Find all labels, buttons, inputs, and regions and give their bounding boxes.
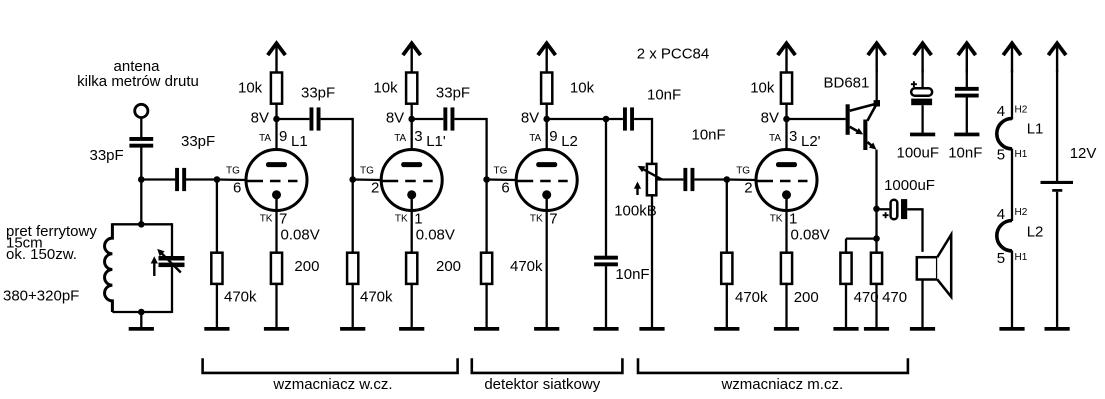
wire cap to node A xyxy=(140,147,142,179)
resistor 200 stage 2 xyxy=(406,253,417,284)
wire grid node to tube 4 xyxy=(727,178,757,181)
resistor 470k stage 2 xyxy=(347,253,358,284)
svg-text:detektor siatkowy: detektor siatkowy xyxy=(484,376,600,393)
triode L2 xyxy=(515,150,577,213)
svg-text:10nF: 10nF xyxy=(948,145,982,162)
resistor 470 right xyxy=(871,253,882,284)
wire detector node to 10nF series xyxy=(606,118,623,120)
wire 470k to ground 3 xyxy=(485,283,487,327)
wire L2' anode to BD681 base xyxy=(787,118,846,120)
ground tank xyxy=(129,327,154,331)
resistor 470k stage 3 xyxy=(481,253,492,284)
wire anode to coupling cap 2 xyxy=(412,118,444,120)
svg-text:TA: TA xyxy=(769,133,781,144)
wire cathode stage 4 xyxy=(785,210,787,254)
wire antenna down xyxy=(140,118,142,138)
pot wiper arrow xyxy=(641,168,663,180)
grid node stage 2 xyxy=(349,176,356,183)
wire grid node down 2 xyxy=(352,180,354,254)
svg-text:33pF: 33pF xyxy=(181,133,215,150)
wire 470 left ground xyxy=(845,283,847,327)
supply arrow 10nF xyxy=(958,43,976,72)
wire grid node down 1 xyxy=(216,180,218,254)
wire 470k to ground 1 xyxy=(216,283,218,327)
wire 1000uF to speaker xyxy=(907,209,922,252)
wire grid node down 3 xyxy=(485,180,487,254)
svg-text:3: 3 xyxy=(789,128,797,145)
supply arrow 100uF xyxy=(914,43,932,72)
svg-text:470k: 470k xyxy=(360,289,393,306)
wire arrow to battery xyxy=(1056,70,1058,181)
ground 470 right xyxy=(864,327,889,331)
wire 10nF to ground xyxy=(605,266,607,327)
plus sign 1000uF xyxy=(883,214,889,216)
supply arrow battery xyxy=(1048,43,1066,72)
wire grid node to tube 1 xyxy=(217,178,247,181)
svg-text:6: 6 xyxy=(501,180,509,197)
svg-text:470k: 470k xyxy=(510,258,543,275)
svg-text:2: 2 xyxy=(744,180,752,197)
bracket wzmacniacz m.cz. xyxy=(638,358,908,373)
ground cathode stage 1 xyxy=(264,327,289,331)
Q1 collector xyxy=(850,104,877,111)
svg-text:0.08V: 0.08V xyxy=(281,226,320,243)
svg-text:33pF: 33pF xyxy=(436,85,470,102)
supply arrow stage 3 xyxy=(538,43,556,72)
varcap small arrow xyxy=(153,263,155,277)
svg-text:7: 7 xyxy=(279,210,287,227)
wire cathode stage 2 xyxy=(411,210,413,254)
svg-text:200: 200 xyxy=(294,258,319,275)
svg-text:1: 1 xyxy=(789,210,797,227)
svg-text:10k: 10k xyxy=(570,80,595,97)
wire node A to coupling cap xyxy=(141,178,175,180)
wire cathode to ground stage 3 xyxy=(546,210,548,327)
wire tank bottom xyxy=(112,311,172,313)
node 8V stage 3 xyxy=(543,116,550,123)
resistor 470 left xyxy=(840,253,851,284)
wire grid node to tube 3 xyxy=(487,178,517,181)
svg-text:380+320pF: 380+320pF xyxy=(3,288,79,305)
wire heater L1 to L2 xyxy=(1011,149,1013,222)
wire coupling cap to next grid 1 xyxy=(321,119,353,180)
svg-text:200: 200 xyxy=(436,258,461,275)
svg-text:8V: 8V xyxy=(251,110,269,127)
resistor 10k stage 1 xyxy=(271,73,282,104)
svg-text:10k: 10k xyxy=(373,80,398,97)
transistor Q2 BD681 bar xyxy=(863,120,867,151)
resistor 200 stage 4 xyxy=(781,253,792,284)
svg-text:L2: L2 xyxy=(561,133,578,150)
tank bottom junction xyxy=(138,309,145,316)
svg-text:TK: TK xyxy=(530,214,543,225)
svg-text:12V: 12V xyxy=(1070,145,1097,162)
svg-text:H2: H2 xyxy=(1015,105,1028,116)
wire battery to ground xyxy=(1056,192,1058,327)
svg-text:L1': L1' xyxy=(426,133,446,150)
variable capacitor 380+320pF xyxy=(171,223,173,256)
ground 470k stage 4 xyxy=(714,327,739,331)
ground 470k stage 2 xyxy=(340,327,365,331)
node emitter/1000uF xyxy=(873,206,880,213)
svg-text:5: 5 xyxy=(997,250,1005,267)
svg-text:kilka metrów drutu: kilka metrów drutu xyxy=(77,73,199,90)
svg-text:wzmacniacz w.cz.: wzmacniacz w.cz. xyxy=(272,376,392,393)
grid node stage 1 xyxy=(214,176,221,183)
wire supply to collector node xyxy=(876,70,878,103)
ground speaker xyxy=(910,327,935,331)
svg-text:33pF: 33pF xyxy=(90,147,124,164)
wire 200 to ground 2 xyxy=(411,283,413,327)
collector node square xyxy=(874,100,880,106)
wire 10nF to ground xyxy=(966,97,968,133)
wire 10k to anode node, anode lead xyxy=(546,103,548,166)
svg-text:H1: H1 xyxy=(1015,149,1028,160)
svg-text:0.08V: 0.08V xyxy=(416,226,455,243)
svg-text:2: 2 xyxy=(371,180,379,197)
svg-text:TA: TA xyxy=(259,133,271,144)
resistor 10k stage 4 xyxy=(781,73,792,104)
node A junction xyxy=(138,176,145,183)
tank top junction xyxy=(138,221,145,228)
supply arrow stage 2 xyxy=(403,43,421,72)
svg-text:8V: 8V xyxy=(761,110,779,127)
heater coil L1 xyxy=(997,119,1012,149)
speaker xyxy=(917,257,937,279)
svg-text:10k: 10k xyxy=(750,80,775,97)
capacitor 33pF coupling stage 2 xyxy=(443,107,454,130)
svg-text:TG: TG xyxy=(494,165,508,176)
capacitor 10nF detector series xyxy=(623,107,634,130)
capacitor 33pF antenna series xyxy=(129,137,153,148)
supply arrow heater xyxy=(1003,43,1021,72)
wire 200 to ground 4 xyxy=(785,283,787,327)
svg-text:10k: 10k xyxy=(238,80,263,97)
resistor 470k stage 1 xyxy=(211,253,222,284)
svg-text:0.08V: 0.08V xyxy=(791,226,830,243)
ground 470 left xyxy=(833,327,858,331)
svg-text:4: 4 xyxy=(997,103,1005,120)
svg-text:470k: 470k xyxy=(224,289,257,306)
svg-text:L2: L2 xyxy=(1027,224,1044,241)
svg-text:H1: H1 xyxy=(1015,252,1028,263)
transistor Q1 BD681 base bar xyxy=(846,104,850,135)
wire anode to coupling cap 1 xyxy=(277,118,310,120)
svg-text:H2: H2 xyxy=(1015,207,1028,218)
wire speaker to ground xyxy=(921,280,923,328)
svg-text:9: 9 xyxy=(279,128,287,145)
wire 10k to anode node, anode lead xyxy=(411,103,413,166)
node 8V stage 1 xyxy=(273,116,280,123)
wire cap to grid node 1 xyxy=(186,178,217,180)
svg-text:TK: TK xyxy=(770,214,783,225)
triode L1 xyxy=(245,150,307,213)
wire coupling cap to next grid 2 xyxy=(455,119,487,180)
svg-text:100uF: 100uF xyxy=(897,145,940,162)
wire tank to ground xyxy=(140,312,142,327)
wire 10k to anode node, anode lead xyxy=(785,103,787,166)
wire arrow to 10nF xyxy=(966,70,968,87)
svg-text:TG: TG xyxy=(226,165,240,176)
svg-text:6: 6 xyxy=(233,180,241,197)
wire arrow to 100uF xyxy=(921,70,923,89)
svg-text:8V: 8V xyxy=(521,110,539,127)
wire grid node to tube 2 xyxy=(353,178,382,181)
ground 10nF xyxy=(954,133,979,137)
bracket wzmacniacz w.cz. xyxy=(203,358,458,373)
node 8V stage 2 xyxy=(408,116,415,123)
wire node A down to tank xyxy=(140,180,142,225)
inductor ferrite coil xyxy=(105,223,113,312)
svg-text:470: 470 xyxy=(854,289,879,306)
potentiometer 100kB xyxy=(647,164,656,195)
svg-text:L1: L1 xyxy=(291,133,308,150)
capacitor 100uF electrolytic xyxy=(911,88,932,95)
ground cathode stage 3 xyxy=(534,327,559,331)
wire 10k to anode node, anode lead xyxy=(275,103,277,166)
Q2 emitter xyxy=(867,142,873,148)
ground cathode stage 2 xyxy=(399,327,424,331)
ground pot xyxy=(639,327,664,331)
wire 470k to ground 4 xyxy=(726,283,728,327)
emitter wire down xyxy=(875,150,877,254)
plus sign 100uF xyxy=(911,83,917,85)
svg-text:TA: TA xyxy=(394,133,406,144)
svg-text:ok. 150zw.: ok. 150zw. xyxy=(6,246,77,263)
capacitor 10nF detector shunt xyxy=(594,256,618,267)
wire cathode stage 1 xyxy=(275,210,277,254)
svg-text:470k: 470k xyxy=(735,289,768,306)
wire arrow to heater L1 xyxy=(1011,70,1013,120)
wire to left 470 xyxy=(846,237,877,239)
Q1 emitter xyxy=(850,127,861,133)
svg-text:wzmacniacz m.cz.: wzmacniacz m.cz. xyxy=(720,376,843,393)
svg-text:10nF: 10nF xyxy=(692,127,726,144)
capacitor 33pF coupling stage 1 xyxy=(310,107,321,130)
ground 470k stage 1 xyxy=(204,327,229,331)
svg-text:33pF: 33pF xyxy=(301,85,335,102)
svg-text:1: 1 xyxy=(414,210,422,227)
varcap adjust arrow xyxy=(160,252,181,273)
supply arrow stage 4 xyxy=(778,43,796,72)
wire 100uF to ground xyxy=(921,105,923,133)
ground heater xyxy=(999,327,1024,331)
svg-text:5: 5 xyxy=(997,147,1005,164)
svg-text:3: 3 xyxy=(414,128,422,145)
wire detector node down xyxy=(605,119,607,256)
svg-text:1000uF: 1000uF xyxy=(884,177,935,194)
ground battery xyxy=(1045,327,1070,331)
wire 470k to ground 2 xyxy=(352,283,354,327)
svg-text:TK: TK xyxy=(395,214,408,225)
pot small arrow xyxy=(636,188,638,196)
svg-text:TA: TA xyxy=(529,133,541,144)
svg-text:470: 470 xyxy=(882,289,907,306)
wire cap to L2' grid node xyxy=(695,178,727,180)
Q2 collector xyxy=(867,104,876,121)
resistor 10k stage 2 xyxy=(406,73,417,104)
svg-text:10nF: 10nF xyxy=(615,266,649,283)
svg-text:100kB: 100kB xyxy=(614,203,657,220)
svg-text:L1: L1 xyxy=(1027,121,1044,138)
svg-text:10nF: 10nF xyxy=(647,87,681,104)
ground detector cap xyxy=(593,327,618,331)
ground cathode stage 4 xyxy=(774,327,799,331)
bracket detektor siatkowy xyxy=(472,358,623,373)
resistor 10k stage 3 xyxy=(541,73,552,104)
svg-text:9: 9 xyxy=(549,128,557,145)
triode L2' xyxy=(755,150,817,213)
supply arrow stage 1 xyxy=(268,43,286,72)
resistor 470k stage 4 xyxy=(721,253,732,284)
wire heater to ground xyxy=(1011,251,1013,328)
svg-text:8V: 8V xyxy=(386,110,404,127)
svg-text:TG: TG xyxy=(736,165,750,176)
wire 200 to ground 1 xyxy=(275,283,277,327)
ground 470k stage 3 xyxy=(474,327,499,331)
capacitor 33pF input series xyxy=(175,168,186,191)
wire grid node down 4 xyxy=(726,180,728,254)
resistor 200 stage 1 xyxy=(271,253,282,284)
capacitor 10nF volume output xyxy=(683,168,694,191)
capacitor 10nF decoupling xyxy=(955,87,979,98)
node 470 resistors xyxy=(873,235,880,242)
node 8V stage 4 xyxy=(783,116,790,123)
svg-text:L2': L2' xyxy=(801,133,821,150)
wire 470 right ground xyxy=(875,283,877,327)
svg-text:4: 4 xyxy=(997,206,1005,223)
grid node stage 3 xyxy=(483,176,490,183)
ground 100uF xyxy=(910,133,935,137)
heater coil L2 xyxy=(997,221,1012,251)
wire tank top xyxy=(112,223,172,225)
supply arrow BD681 xyxy=(868,43,886,72)
wire pot bottom to ground xyxy=(651,195,653,327)
svg-text:7: 7 xyxy=(549,210,557,227)
detector node junction xyxy=(603,116,610,123)
wire wiper to output cap xyxy=(657,178,684,180)
svg-text:2 x PCC84: 2 x PCC84 xyxy=(637,46,710,63)
wire L2 anode to detector node xyxy=(547,118,606,120)
svg-text:TG: TG xyxy=(360,165,374,176)
triode L1' xyxy=(380,150,442,213)
wire cap to potentiometer top xyxy=(634,119,652,165)
svg-text:BD681: BD681 xyxy=(824,75,870,92)
svg-text:TK: TK xyxy=(260,214,273,225)
grid node stage 4 xyxy=(724,176,731,183)
antenna terminal xyxy=(135,104,148,117)
svg-text:200: 200 xyxy=(794,289,819,306)
